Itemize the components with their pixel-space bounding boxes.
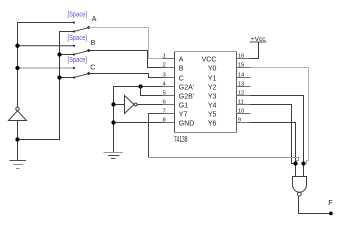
- svg-text:2: 2: [163, 62, 166, 68]
- node: output terminal F: [329, 212, 333, 216]
- inverter U2: NOT gate driving G1 enable: [125, 96, 138, 114]
- wire: LOW bus branch to switch C bottom contact: [60, 77, 75, 79]
- gate U4: NAND (AND shape pointing down with bubble): [293, 177, 307, 197]
- wire: Y7 (pin 7) vertical leg down from pin: [149, 114, 163, 158]
- svg-text:12: 12: [238, 90, 245, 96]
- power +Vcc symbol: [250, 36, 267, 43]
- svg-text:VCC: VCC: [202, 57, 217, 64]
- switch J2 key=Space (input B): [73, 45, 90, 56]
- svg-text:1: 1: [163, 53, 166, 59]
- pin numbers U1 right (16-9): [238, 53, 245, 123]
- wire: branch to U1 pin 5 (G2B'): [141, 87, 163, 96]
- svg-text:13: 13: [238, 81, 245, 87]
- pin labels U1 left column: [179, 57, 195, 128]
- svg-text:Y5: Y5: [208, 112, 217, 119]
- wire: U3 input down to ground junction: [17, 121, 19, 161]
- pin stubs U1 left side (pins 1-8): [163, 59, 175, 123]
- svg-text:GND: GND: [179, 121, 195, 128]
- svg-text:B: B: [179, 66, 184, 73]
- wire: Y7 long horizontal run to NAND input junction (gray net): [149, 158, 299, 164]
- node: junction HIGH bus / switch B top: [15, 44, 19, 48]
- node: junction at GND pin branch: [111, 120, 115, 124]
- wire: +Vcc down to U1 pin 16: [251, 42, 259, 59]
- wire: enable net from ground bus to U1 pin 4 (G2A'): [114, 87, 163, 153]
- ground GND1: [10, 161, 27, 169]
- wire: switch B pole to U1 pin 2: [89, 51, 163, 68]
- svg-text:G2A': G2A': [179, 85, 194, 92]
- wire: branch to inverter U2 input: [114, 104, 125, 106]
- svg-text:Y1: Y1: [208, 76, 217, 83]
- wire: branch to U1 pin 8 (GND): [114, 122, 163, 124]
- wire: HIGH bus branch to switch B top contact: [18, 45, 75, 47]
- svg-text:[Space]: [Space]: [68, 35, 88, 42]
- wire: switch C pole to U1 pin 3: [89, 74, 163, 78]
- node: NAND input junction left: [293, 161, 297, 165]
- node: junction HIGH bus / switch C top: [15, 66, 19, 70]
- ground GND2: [104, 153, 124, 159]
- switch J3 key=Space (input C): [73, 67, 90, 78]
- svg-text:9: 9: [238, 117, 241, 123]
- wire: HIGH bus branch to switch C top contact (gray net): [18, 67, 75, 69]
- svg-text:11: 11: [238, 99, 244, 105]
- wire: Y3 (pin 12) through junction into NAND input: [251, 96, 304, 177]
- wire: Y0 (pin 15) to NAND input junction (gray net): [251, 68, 309, 164]
- wire: HIGH bus from inverter U3 output up to switch A top contact: [18, 23, 75, 108]
- svg-text:G2B': G2B': [179, 94, 194, 101]
- svg-text:B: B: [91, 40, 96, 47]
- wire: U2 output to U1 pin 6 (G1): [137, 104, 162, 106]
- svg-text:14: 14: [238, 72, 245, 78]
- wire: LOW bus branch to switch B bottom contact: [60, 54, 75, 56]
- node: junction for G2B' branch: [138, 84, 142, 88]
- svg-text:[Space]: [Space]: [68, 11, 88, 18]
- svg-text:C: C: [90, 64, 95, 71]
- IC U1: 74138 decoder body: [175, 52, 237, 133]
- svg-text:15: 15: [238, 62, 245, 68]
- wire: LOW bus from switch A bottom contact down to ground node: [18, 32, 75, 140]
- pin labels U1 right column: [202, 57, 217, 128]
- svg-text:10: 10: [238, 108, 245, 114]
- svg-text:7: 7: [163, 108, 166, 114]
- svg-text:[Space]: [Space]: [68, 57, 88, 64]
- svg-text:F: F: [328, 198, 333, 207]
- svg-text:74138: 74138: [174, 134, 187, 144]
- node: junction LOW bus / switch C bottom: [57, 75, 61, 79]
- inverter U3: NOT gate pointing up (logic-high source): [9, 107, 27, 120]
- node: junction at U2 input: [111, 102, 115, 106]
- wire: Y6 (pin 9) through junction into NAND input: [251, 123, 296, 177]
- wire: switch A pole to U1 pin 1 (gray net): [89, 28, 163, 59]
- wire: Y4 (pin 11) to NAND input junction: [251, 105, 296, 164]
- node: junction LOW bus / switch B bottom: [57, 52, 61, 56]
- wire: NAND output to terminal F: [299, 196, 331, 214]
- svg-text:A: A: [92, 16, 97, 23]
- pin stubs U1 right side (pins 16-9): [237, 59, 251, 123]
- svg-text:Y4: Y4: [208, 103, 217, 110]
- svg-text:16: 16: [238, 53, 245, 59]
- svg-text:Y2: Y2: [208, 85, 217, 92]
- svg-text:G1: G1: [179, 103, 188, 110]
- svg-text:Y6: Y6: [208, 121, 217, 128]
- pin numbers U1 left (1-8): [163, 53, 167, 123]
- node: junction at inverter input / LOW bus / ground: [15, 137, 19, 141]
- svg-text:Y7: Y7: [179, 112, 188, 119]
- svg-text:Y3: Y3: [208, 94, 217, 101]
- svg-text:A: A: [179, 57, 184, 64]
- switch J1 key=Space (input A): [73, 22, 90, 33]
- svg-text:C: C: [179, 76, 184, 83]
- node: NAND input junction right: [301, 161, 305, 165]
- svg-text:Y0: Y0: [208, 66, 217, 73]
